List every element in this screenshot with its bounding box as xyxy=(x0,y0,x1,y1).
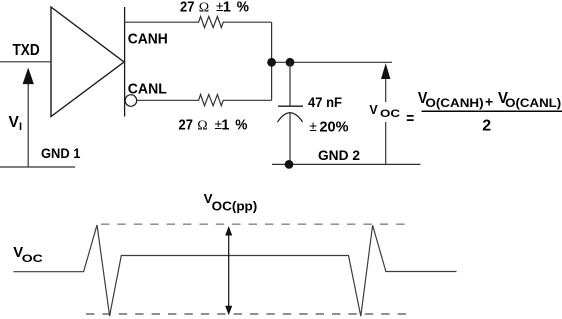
svg-text:TXD: TXD xyxy=(13,42,40,59)
svg-text:OC: OC xyxy=(380,108,400,120)
svg-text:CANH: CANH xyxy=(128,31,168,48)
svg-text:GND 1: GND 1 xyxy=(41,145,81,161)
svg-text:O(CANL): O(CANL) xyxy=(505,96,561,110)
svg-text:OC(pp): OC(pp) xyxy=(212,200,258,214)
svg-text:47 nF: 47 nF xyxy=(308,95,342,110)
svg-text:1: 1 xyxy=(223,0,231,16)
svg-text:Ω: Ω xyxy=(197,118,207,133)
svg-text:2: 2 xyxy=(482,117,491,134)
svg-text:20%: 20% xyxy=(320,119,349,136)
svg-text:O(CANH): O(CANH) xyxy=(425,96,483,110)
svg-text:=: = xyxy=(406,111,414,128)
svg-text:V: V xyxy=(369,103,378,117)
svg-text:Ω: Ω xyxy=(199,1,209,16)
svg-text:+: + xyxy=(485,94,493,110)
svg-text:OC: OC xyxy=(22,253,43,265)
svg-text:1: 1 xyxy=(221,116,229,133)
svg-text:±: ± xyxy=(309,119,316,134)
svg-text:%: % xyxy=(237,0,249,16)
svg-text:27: 27 xyxy=(180,0,194,16)
svg-text:27: 27 xyxy=(179,116,193,133)
svg-text:I: I xyxy=(19,121,22,133)
svg-text:V: V xyxy=(9,114,20,131)
svg-text:GND 2: GND 2 xyxy=(318,147,360,163)
svg-text:%: % xyxy=(235,116,247,133)
